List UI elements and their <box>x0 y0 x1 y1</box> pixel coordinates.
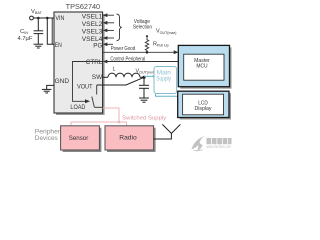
block Radio box <box>105 126 156 152</box>
svg-text:Sensor: Sensor <box>69 135 89 142</box>
wire SW stub <box>103 76 108 78</box>
svg-text:Selection: Selection <box>133 25 152 31</box>
svg-text:VOUT: VOUT <box>77 84 93 91</box>
wire VBAT rail to VIN <box>34 17 55 19</box>
svg-text:VIN: VIN <box>55 16 64 22</box>
svg-text:SW: SW <box>92 74 103 81</box>
svg-text:Power Good: Power Good <box>111 46 136 52</box>
svg-text:PG: PG <box>93 42 102 49</box>
node junction dot PG resistor <box>146 51 149 54</box>
svg-text:LOAD: LOAD <box>70 104 85 111</box>
svg-text:GND: GND <box>55 79 70 85</box>
wire VSEL4 stub with arrow <box>103 36 114 40</box>
svg-text:www.elecfans.com: www.elecfans.com <box>206 144 231 149</box>
node VOUTmax terminal dot <box>146 35 148 37</box>
wire PG to MCU <box>103 51 177 53</box>
node VOUTnom junction dot <box>142 76 145 79</box>
watermark chinese text blocks <box>207 138 232 144</box>
svg-text:MCU: MCU <box>196 64 207 70</box>
wire VSEL3 stub with arrow <box>103 29 114 33</box>
svg-text:VSEL1: VSEL1 <box>82 13 103 20</box>
svg-text:Radio: Radio <box>119 135 137 142</box>
arrow internal to switch <box>85 99 90 103</box>
arrow into Master MCU <box>174 50 179 54</box>
svg-text:CTRL: CTRL <box>86 59 103 66</box>
IC U1 TPS62740 body <box>54 2 105 115</box>
svg-text:Supply: Supply <box>156 76 171 82</box>
svg-text:4.7µF: 4.7µF <box>18 36 33 42</box>
wire rail to EN <box>47 18 54 44</box>
block LCD Display box <box>178 91 231 119</box>
svg-text:Display: Display <box>195 106 212 112</box>
block Master MCU box <box>178 45 231 88</box>
node junction dot Cin <box>37 17 40 20</box>
wire EN inner vertical <box>51 18 53 44</box>
capacitor C2 Cout <box>139 77 149 98</box>
svg-text:VSEL3: VSEL3 <box>82 29 103 36</box>
wire VOUT diagonal to node <box>97 77 144 85</box>
arrow into CTRL pin <box>103 60 108 64</box>
wire VSEL1 stub with arrow <box>103 13 114 17</box>
resistor R1 RPullUp zigzag <box>145 37 148 52</box>
svg-text:Switched Supply: Switched Supply <box>122 116 166 122</box>
wire teal node to Main Supply box <box>144 75 154 77</box>
node junction dot EN branch <box>46 17 49 20</box>
wire internal CTRL control line <box>73 62 103 102</box>
ground under Cin <box>34 44 44 48</box>
wire main supply teal to LCD <box>156 94 178 97</box>
svg-text:Devices: Devices <box>35 136 58 142</box>
ground under Cout <box>139 98 149 102</box>
capacitor C1 Cin <box>34 18 44 44</box>
svg-text:L: L <box>113 67 116 73</box>
wire CTRL from MCU <box>106 61 178 63</box>
wire inductor to node <box>140 76 144 78</box>
wire pink to radio <box>119 122 127 126</box>
block Main Supply teal box <box>154 67 177 94</box>
antenna <box>154 124 181 139</box>
ground at GND pin <box>42 89 52 93</box>
node pink junction dot <box>118 121 121 124</box>
svg-text:EN: EN <box>55 43 62 49</box>
inductor L1 <box>108 73 140 77</box>
node VBAT terminal <box>30 16 34 20</box>
brace voltage selection group <box>117 14 122 41</box>
wire LOAD pink supply <box>71 108 119 126</box>
switch internal VOUT-LOAD <box>92 85 103 107</box>
node teal junction dot <box>153 75 156 78</box>
wire VSEL2 stub with arrow <box>103 21 114 25</box>
svg-text:VSEL2: VSEL2 <box>82 21 103 28</box>
wire GND pin stub <box>47 85 54 89</box>
block Sensor box <box>61 126 102 152</box>
watermark logo swoosh <box>192 136 205 152</box>
svg-text:TPS62740: TPS62740 <box>66 2 100 11</box>
wire PG stub with arrow <box>103 42 113 46</box>
